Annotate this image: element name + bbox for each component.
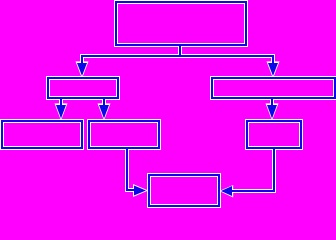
box F (level 3 right) xyxy=(245,119,303,150)
wire: box B right drop xyxy=(103,98,105,106)
box D (level 3 far left) xyxy=(0,119,84,150)
arrowhead: into box B xyxy=(77,63,87,76)
box B (level 2 left) xyxy=(46,76,120,100)
arrowhead halo: into box H right xyxy=(219,185,233,198)
wire halo: right elbow horizontal xyxy=(231,189,276,193)
wire: box C drop xyxy=(271,98,273,106)
wire halo: left branch drop xyxy=(80,56,84,64)
wire: right branch drop xyxy=(272,55,274,63)
arrowhead: into box C xyxy=(268,63,278,76)
arrowhead: into box F xyxy=(267,105,277,119)
arrowhead halo: into box C xyxy=(267,61,280,78)
arrowhead: into box E xyxy=(99,105,109,119)
wire halo: right branch drop xyxy=(271,56,275,64)
wire: stem from box A xyxy=(179,46,181,57)
wire halo: box C drop xyxy=(270,97,274,106)
wire: left branch drop xyxy=(81,55,83,63)
arrowhead halo: into box E xyxy=(98,103,111,120)
wire halo: box E down leg xyxy=(125,147,129,192)
arrowhead: into box D xyxy=(56,105,66,119)
box E (level 3 middle) xyxy=(87,119,161,150)
box A (top) xyxy=(114,0,248,47)
wire halo: left elbow horizontal xyxy=(125,188,136,192)
wire: left elbow horizontal xyxy=(126,189,135,191)
wire: main horizontal rail xyxy=(81,55,274,57)
box H (bottom) xyxy=(147,173,221,208)
arrowhead halo: into box B xyxy=(76,61,89,78)
wire: box B left drop xyxy=(60,98,62,106)
arrowhead halo: into box F xyxy=(266,103,279,120)
wire: right elbow horizontal xyxy=(232,190,274,192)
arrowhead: into box H right xyxy=(221,186,232,196)
arrowhead: into box H left xyxy=(134,186,146,196)
wire halo: box F down leg xyxy=(272,148,276,193)
wire halo: box B right drop xyxy=(102,97,106,106)
arrowhead halo: into box H left xyxy=(133,184,148,197)
wire halo: main horizontal rail xyxy=(80,54,275,58)
wire: box E down leg xyxy=(126,148,128,191)
wire halo: stem from top box xyxy=(178,45,182,58)
wire halo: box B left drop xyxy=(59,97,63,106)
arrowhead halo: into box D xyxy=(55,103,68,120)
box C (level 2 right) xyxy=(210,76,336,100)
wire: box F down leg xyxy=(273,149,275,192)
